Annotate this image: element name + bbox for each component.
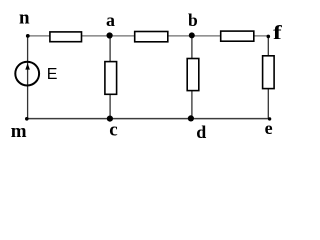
svg-text:e: e <box>265 118 273 138</box>
svg-text:n: n <box>19 8 30 29</box>
svg-text:a: a <box>106 10 115 30</box>
svg-text:d: d <box>196 122 206 142</box>
svg-text:m: m <box>11 121 27 142</box>
svg-text:f: f <box>273 22 282 44</box>
svg-text:c: c <box>109 120 117 141</box>
svg-text:E: E <box>47 66 58 83</box>
svg-text:b: b <box>188 10 198 30</box>
